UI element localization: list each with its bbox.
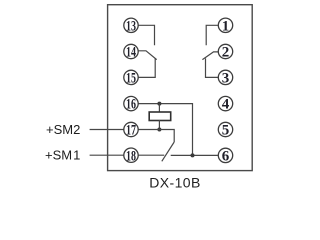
terminal 14 xyxy=(124,44,138,60)
terminal 4 xyxy=(218,96,232,112)
terminal 3 xyxy=(218,70,232,86)
coil top lead xyxy=(158,104,160,113)
svg-text:5: 5 xyxy=(222,123,230,139)
terminal 17 xyxy=(124,122,138,138)
svg-text:6: 6 xyxy=(222,149,230,165)
svg-text:4: 4 xyxy=(222,97,230,113)
wire from terminal 3 xyxy=(206,58,219,77)
junction dot coil top xyxy=(157,102,161,106)
terminal 15 xyxy=(124,70,138,86)
contact arm of terminal 2 xyxy=(202,52,218,60)
svg-text:2: 2 xyxy=(222,45,230,61)
svg-text:+SM1: +SM1 xyxy=(45,147,80,162)
relay coil KA xyxy=(149,112,171,121)
wire from terminal 15 xyxy=(138,58,155,77)
svg-text:14: 14 xyxy=(126,45,136,61)
svg-text:15: 15 xyxy=(126,71,136,87)
svg-text:17: 17 xyxy=(126,123,136,139)
coil bottom lead xyxy=(158,120,160,130)
terminal 6 xyxy=(218,148,232,164)
terminal 13 xyxy=(124,18,138,34)
terminal 2 xyxy=(218,44,232,60)
fixed contact lead of terminal 18 xyxy=(138,154,164,156)
svg-text:+SM2: +SM2 xyxy=(46,122,80,137)
moving contact arm bottom xyxy=(162,142,174,161)
svg-text:1: 1 xyxy=(222,18,230,34)
svg-text:18: 18 xyxy=(126,148,136,164)
lead from contact to terminal 6 xyxy=(171,154,219,156)
wire from terminal 16 to right riser xyxy=(138,104,192,156)
relay case outline xyxy=(108,5,253,171)
wire +SM1 into terminal 18 xyxy=(90,154,124,156)
terminal 5 xyxy=(218,122,232,138)
terminal 18 xyxy=(124,148,138,164)
contact arm of terminal 14 xyxy=(138,51,157,60)
svg-text:3: 3 xyxy=(222,71,230,87)
wire from terminal 13 xyxy=(138,25,154,45)
svg-text:DX-10B: DX-10B xyxy=(149,175,200,191)
wire from terminal 17 to contact arm xyxy=(138,130,174,143)
terminal 1 xyxy=(218,18,232,34)
terminal 16 xyxy=(124,96,138,112)
junction dot node 6 riser xyxy=(191,153,195,157)
svg-text:13: 13 xyxy=(126,18,136,34)
junction dot coil bottom xyxy=(157,128,161,132)
svg-text:16: 16 xyxy=(126,97,136,113)
wire from terminal 1 xyxy=(206,25,218,45)
wire +SM2 into terminal 17 xyxy=(90,129,124,131)
